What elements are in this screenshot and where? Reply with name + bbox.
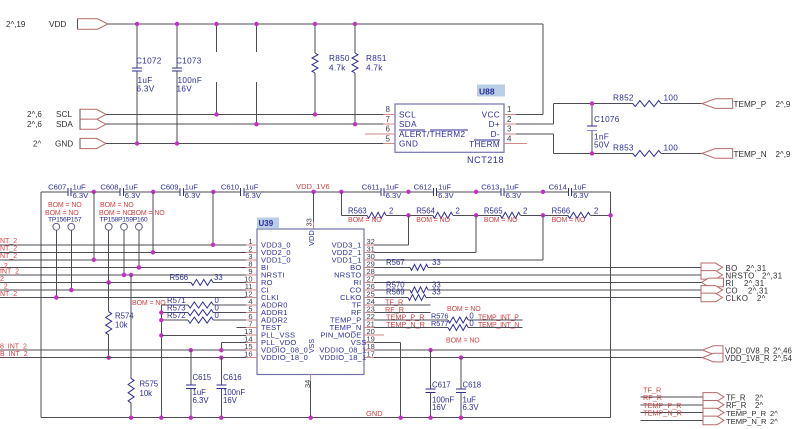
port CO — [701, 286, 723, 295]
svg-text:8_INT_2: 8_INT_2 — [0, 344, 27, 351]
svg-text:R565: R565 — [484, 207, 503, 216]
svg-text:U88: U88 — [479, 87, 495, 97]
wire VDDIO_18_1 pin17 to port VDD_1V8_R — [374, 357, 703, 359]
U39 right pin 25 CLKO — [364, 296, 374, 298]
svg-text:R575: R575 — [140, 380, 159, 389]
resistor R577 0 — [374, 327, 448, 329]
svg-text:6.3V: 6.3V — [506, 191, 523, 200]
port GND — [80, 138, 106, 148]
svg-text:33: 33 — [432, 288, 441, 297]
wire RI to port — [374, 281, 702, 283]
U88 pin 5 GND — [383, 143, 395, 145]
svg-text:U39: U39 — [259, 219, 274, 228]
junction dots GND — [135, 141, 139, 145]
wire bus row4 (to U39 pin8 BI) — [0, 266, 246, 268]
svg-text:BOM = NO: BOM = NO — [100, 202, 134, 209]
svg-text:100: 100 — [664, 94, 679, 103]
svg-text:0: 0 — [215, 311, 220, 320]
wire D+ to TEMP_P — [516, 123, 554, 125]
svg-text:THERM: THERM — [469, 140, 500, 149]
wire GND rail — [41, 417, 611, 419]
wire TEMP_P_R to port — [641, 412, 704, 414]
svg-text:TP156P157: TP156P157 — [48, 217, 82, 224]
port SDA — [80, 119, 106, 129]
svg-text:17: 17 — [367, 350, 375, 359]
svg-text:VDD: VDD — [49, 20, 66, 29]
svg-text:R567: R567 — [386, 258, 405, 267]
U39 right pin 22 TEMP_P — [364, 319, 374, 321]
port VDD_1V8_R — [703, 353, 724, 362]
svg-text:6.3V: 6.3V — [573, 191, 590, 200]
svg-text:TP158P159P160: TP158P159P160 — [100, 217, 148, 224]
junction dots GND rail — [129, 416, 133, 420]
svg-text:TEMP_P: TEMP_P — [734, 100, 767, 109]
resistor R563 2 (BOM=NO) — [340, 192, 342, 216]
wire RF stub — [374, 311, 430, 313]
svg-text:D+: D+ — [489, 120, 500, 129]
wire RF_R to port — [641, 404, 704, 406]
capacitor C610 1uF 6.3V — [240, 188, 242, 196]
wire testpoint drop x=71.3 — [70, 230, 72, 290]
wire TEMP_N_R to port — [641, 419, 704, 421]
IC U39 body — [257, 229, 364, 375]
U39 right pin 24 TF — [364, 304, 374, 306]
svg-text:10k: 10k — [115, 321, 128, 330]
svg-text:C1072: C1072 — [136, 57, 162, 66]
testpoint TP157 circle — [68, 223, 75, 230]
svg-text:NT_2: NT_2 — [0, 253, 17, 260]
label U39 — [257, 218, 279, 229]
svg-text:NT_2: NT_2 — [0, 238, 17, 245]
svg-text:C617: C617 — [432, 381, 451, 390]
svg-text:5: 5 — [386, 134, 391, 143]
svg-text:10k: 10k — [140, 389, 153, 398]
svg-text:BOM = NO: BOM = NO — [484, 217, 518, 224]
U39 right pin 31 VDD2_1 — [364, 251, 374, 253]
U39 right pin 27 RI — [364, 281, 374, 283]
svg-text:BOM = NO: BOM = NO — [552, 217, 586, 224]
port TEMP_P_R — [703, 408, 724, 417]
U39 left pin 7 TEST — [246, 327, 257, 329]
wire bus row6 (to U39 pin10 RO) with R568 — [0, 281, 191, 283]
svg-text:6.3V: 6.3V — [137, 85, 155, 94]
junction dot D+ node — [590, 101, 594, 105]
wire U39 pin30 to rail — [364, 259, 543, 261]
wire U39 pin33 to rail — [313, 192, 315, 222]
svg-text:R850: R850 — [329, 54, 350, 63]
junction dots on bus rows — [211, 243, 215, 247]
svg-text:4.7k: 4.7k — [366, 64, 383, 73]
U88 pin 4 THERM (no connect) — [504, 143, 527, 145]
U39 left pin 16 VDDIO_18_0 — [246, 357, 257, 359]
resistor R572 0 — [161, 319, 188, 321]
U39 left pin 5 ADDR1 — [246, 311, 257, 313]
svg-text:R563: R563 — [348, 207, 367, 216]
resistor R565 2 (BOM=NO) — [476, 214, 500, 216]
wire SCL — [106, 113, 383, 115]
svg-text:2: 2 — [594, 207, 598, 216]
svg-text:VDDIO_18_0: VDDIO_18_0 — [261, 353, 308, 362]
svg-text:R852: R852 — [613, 94, 634, 103]
svg-text:16V: 16V — [432, 403, 447, 412]
svg-text:2: 2 — [456, 207, 460, 216]
svg-text:6.3V: 6.3V — [245, 191, 262, 200]
op-amp U88 NCT218 body — [395, 104, 504, 152]
svg-text:VDD: VDD — [307, 230, 316, 246]
port TEMP_P — [702, 99, 733, 109]
junction dots VDD_1V6 rail — [92, 190, 96, 194]
resistor R566 2 (BOM=NO) — [543, 214, 568, 216]
U39 right pin 18 VDDIO_08_1 — [364, 349, 374, 351]
svg-text:7: 7 — [386, 115, 391, 124]
U39 left pin 8 BI — [246, 266, 257, 268]
wire rail to U39 pin2 — [152, 192, 154, 253]
svg-text:R572: R572 — [167, 311, 186, 320]
svg-text:R566: R566 — [170, 273, 189, 282]
U39 left pin 1 VDD3_0 — [246, 244, 257, 246]
svg-text:BOM = NO: BOM = NO — [48, 202, 82, 209]
port CLKO — [701, 293, 723, 302]
svg-text:C607: C607 — [48, 183, 66, 192]
svg-text:2: 2 — [507, 115, 512, 124]
svg-text:6.3V: 6.3V — [125, 191, 142, 200]
junction dot D- node — [590, 151, 594, 155]
testpoint TP156 circle — [53, 223, 60, 230]
svg-text:CLKO: CLKO — [726, 294, 749, 303]
svg-text:C614: C614 — [549, 183, 567, 192]
svg-text:2^,9: 2^,9 — [776, 150, 791, 159]
svg-text:SDA: SDA — [399, 120, 417, 129]
svg-text:C612: C612 — [414, 183, 432, 192]
svg-text:100: 100 — [664, 143, 679, 152]
svg-text:2: 2 — [389, 207, 393, 216]
svg-text:B_INT_2: B_INT_2 — [0, 351, 28, 358]
resistor R853 100 — [633, 150, 661, 156]
capacitor C1072 — [136, 24, 138, 68]
resistor R566b 33 (series RO) — [191, 279, 213, 285]
svg-text:SCL: SCL — [399, 110, 416, 119]
U39 right pin 28 NRSTO — [364, 274, 374, 276]
capacitor C1073 — [176, 24, 178, 68]
svg-text:16V: 16V — [223, 396, 238, 405]
U88 pin 1 VCC — [504, 113, 516, 115]
svg-text:VDD_1V8_R: VDD_1V8_R — [725, 354, 770, 363]
svg-text:2^: 2^ — [33, 139, 41, 148]
wire VDD_1V6 rail — [41, 191, 68, 193]
wire bus row5 (to U39 pin9 NRSTI) — [0, 274, 246, 276]
U39 right pin 19 VSS — [364, 342, 374, 344]
svg-text:BOM = NO: BOM = NO — [416, 217, 450, 224]
port TF_R — [703, 393, 724, 402]
svg-text:R577: R577 — [431, 319, 448, 328]
wire bus row7 (to U39 pin11 CI) — [0, 289, 246, 291]
svg-text:C608: C608 — [100, 183, 118, 192]
svg-text:TEMP_INT_N: TEMP_INT_N — [478, 322, 519, 329]
svg-text:TEMP_N_R: TEMP_N_R — [643, 409, 682, 418]
svg-text:6: 6 — [386, 125, 391, 134]
svg-text:R566: R566 — [552, 207, 571, 216]
U39 right pin 17 VDDIO_18_1 — [364, 357, 374, 359]
svg-text:R853: R853 — [613, 143, 634, 152]
U39 right pin 23 RF — [364, 311, 374, 313]
resistor R569 33 — [374, 296, 408, 298]
wire SDA — [106, 123, 383, 125]
wire VCC to VDD rail — [516, 113, 543, 115]
svg-text:C610: C610 — [221, 183, 239, 192]
junction dots SDA — [254, 122, 258, 126]
wire PIN_MODE stub (no connect) — [374, 334, 384, 336]
svg-text:6.3V: 6.3V — [73, 191, 90, 200]
junction dots SCL — [214, 112, 218, 116]
svg-text:6.3V: 6.3V — [193, 396, 210, 405]
svg-text:33: 33 — [214, 273, 223, 282]
wire bus row3 (to U39 pin3) — [0, 259, 246, 261]
svg-text:2^,31: 2^,31 — [762, 271, 782, 280]
U39 left pin 3 VDD1_0 — [246, 259, 257, 261]
U39 right pin 21 TEMP_N — [364, 327, 374, 329]
svg-text:BOM = NO: BOM = NO — [348, 217, 382, 224]
svg-text:VSS: VSS — [309, 339, 316, 353]
U39 right pin 30 VDD1_1 — [364, 259, 374, 261]
wire GND — [106, 143, 383, 145]
wire VDDIO_08_1 pin18 to port VDD_0V8_R — [374, 349, 703, 351]
port SCL — [80, 109, 106, 119]
svg-text:NT_2: NT_2 — [0, 246, 17, 253]
U39 left pin 12 CLKI — [246, 296, 257, 298]
svg-text:GND: GND — [366, 409, 383, 418]
resistor R574 10k — [108, 282, 110, 311]
wire testpoint drop x=138.9 — [138, 230, 140, 267]
svg-text:C616: C616 — [223, 373, 242, 382]
junction dots resistor row — [406, 213, 410, 217]
svg-text:D-: D- — [491, 130, 500, 139]
wire PLL_VDD (U39 pin14) — [221, 341, 246, 343]
U39 left pin 13 PLL_VSS — [246, 334, 257, 336]
svg-text:2^,54: 2^,54 — [773, 354, 792, 363]
svg-text:2^: 2^ — [770, 417, 778, 426]
U39 pin 34 wire to GND rail — [310, 375, 312, 382]
U39 left pin 9 NRSTI — [246, 274, 257, 276]
svg-text:2^,6: 2^,6 — [27, 110, 42, 119]
wire D- to TEMP_N — [516, 133, 554, 135]
svg-text:16: 16 — [244, 350, 252, 359]
resistor R567 33 — [374, 266, 410, 268]
svg-text:16V: 16V — [177, 85, 193, 94]
resistor R575 10k — [130, 275, 132, 379]
resistor R852 100 — [633, 101, 661, 107]
wire testpoint drop x=56.3 — [55, 230, 57, 297]
testpoint TP159 circle — [121, 223, 128, 230]
capacitor C618 1uF 6.3V — [460, 358, 462, 389]
resistor R850 4.7k — [314, 24, 316, 53]
wire testpoint drop x=108.7 — [108, 230, 110, 282]
U88 pin 6 ALERT/THERM2 (no connect) — [365, 133, 395, 135]
label U88 — [477, 85, 505, 97]
svg-text:8: 8 — [386, 105, 391, 114]
wire TF stub — [374, 304, 430, 306]
wire NRSTO to port — [374, 274, 702, 276]
testpoint TP158 circle — [105, 223, 112, 230]
svg-text:2: 2 — [523, 207, 527, 216]
U39 right pin 29 BO — [364, 266, 374, 268]
svg-text:R564: R564 — [416, 207, 435, 216]
wire ADDR strap vertical — [160, 305, 162, 418]
U39 left pin 11 CI — [246, 289, 257, 291]
port RF_R — [703, 401, 724, 410]
wire testpoint drop x=124.0 — [123, 230, 125, 275]
svg-text:6.3V: 6.3V — [386, 191, 403, 200]
wire VDD rail — [108, 23, 543, 25]
U39 left pin 10 RO — [246, 281, 257, 283]
svg-text:SCL: SCL — [56, 110, 72, 119]
svg-text:R851: R851 — [366, 54, 387, 63]
capacitor C1076 1nF 50V — [591, 104, 593, 126]
port TEMP_N — [702, 149, 733, 159]
svg-text:TEMP_INT_P: TEMP_INT_P — [478, 314, 519, 321]
svg-text:6.3V: 6.3V — [185, 191, 202, 200]
svg-text:33: 33 — [305, 218, 314, 226]
U88 pin 3 D- — [504, 133, 516, 135]
wire bus row8 (to U39 pin12 CLKI) — [0, 297, 246, 299]
svg-text:NCT218: NCT218 — [467, 155, 504, 165]
svg-text:TEMP_N_R: TEMP_N_R — [726, 417, 767, 426]
svg-text:2: 2 — [0, 276, 4, 283]
wire rail left drop — [40, 192, 42, 418]
svg-text:4: 4 — [507, 134, 512, 143]
U39 right pin 20 PIN_MODE — [364, 334, 374, 336]
svg-text:R569: R569 — [386, 288, 405, 297]
svg-text:TEMP_N: TEMP_N — [734, 150, 767, 159]
port RI (input) — [702, 278, 724, 287]
svg-text:6.3V: 6.3V — [438, 191, 455, 200]
U39 left pin 15 VDDIO_08_0 — [246, 349, 257, 351]
svg-text:C1073: C1073 — [176, 57, 202, 66]
svg-text:C609: C609 — [160, 183, 178, 192]
wire bus row2 (to U39 pin2) — [0, 251, 246, 253]
port VDD — [78, 19, 109, 29]
capacitor C617 100nF 16V — [430, 350, 432, 389]
svg-text:2^,9: 2^,9 — [776, 100, 791, 109]
resistor R576 0 — [374, 319, 448, 321]
wire VSS pin19 to GND — [374, 342, 401, 344]
capacitor C609 1uF 6.3V — [179, 188, 181, 196]
svg-text:_2: _2 — [0, 284, 8, 291]
wire VDDIO_18_0 (U39 pin16) — [0, 357, 246, 359]
svg-text:VDDIO_18_1: VDDIO_18_1 — [319, 353, 366, 362]
U39 left pin 4 ADDR0 — [246, 304, 257, 306]
U39 left pin 6 ADDR2 — [246, 319, 257, 321]
U39 right pin 26 CO — [364, 289, 374, 291]
wire TF_R to port — [641, 396, 704, 398]
U88 pin 2 D+ — [504, 123, 516, 125]
svg-text:50V: 50V — [594, 141, 610, 150]
svg-text:0: 0 — [469, 319, 474, 328]
wire VDDIO_08_0 (U39 pin15) — [0, 349, 246, 351]
wire rail to U39 pin1 — [212, 192, 214, 245]
resistor R571 0 — [161, 304, 188, 306]
U39 left pin 14 PLL_VDO — [246, 342, 257, 344]
svg-text:INT_2: INT_2 — [0, 268, 19, 275]
wire U39 pin32 to rail — [364, 244, 409, 246]
capacitor C614 1uF 6.3V — [567, 188, 569, 196]
capacitor C615 1uF 6.3V — [190, 350, 192, 385]
capacitor C608 1uF 6.3V — [119, 188, 121, 196]
capacitor C612 1uF 6.3V — [432, 188, 434, 196]
capacitor C613 1uF 6.3V — [500, 188, 502, 196]
U39 right pin 32 VDD3_1 — [364, 244, 374, 246]
svg-text:2^,6: 2^,6 — [27, 120, 42, 129]
svg-text:GND: GND — [399, 140, 418, 149]
wire U39 pin31 to rail — [364, 251, 476, 253]
svg-text:4.7k: 4.7k — [329, 64, 346, 73]
svg-text:SDA: SDA — [56, 120, 73, 129]
resistor R570 33 — [374, 289, 410, 291]
port TEMP_N_R — [703, 416, 724, 425]
svg-text:ALERT/THERM2: ALERT/THERM2 — [399, 130, 465, 139]
port NRSTO — [701, 271, 723, 280]
wire TEST stub (U39 pin7) — [237, 327, 246, 329]
capacitor C607 1uF 6.3V — [67, 188, 69, 196]
testpoint TP1510 circle — [136, 223, 143, 230]
svg-text:GND: GND — [55, 139, 73, 148]
svg-text:BOM = NO: BOM = NO — [446, 338, 480, 345]
svg-text:1: 1 — [507, 105, 512, 114]
svg-text:VDD_1V6: VDD_1V6 — [296, 182, 330, 191]
resistor R564 2 (BOM=NO) — [409, 214, 433, 216]
svg-text:BOM = NO: BOM = NO — [447, 306, 481, 313]
U39 left pin 2 VDD2_0 — [246, 251, 257, 253]
svg-text:6.3V: 6.3V — [463, 403, 480, 412]
svg-text:VCC: VCC — [482, 110, 500, 119]
junction dots VDD rail — [135, 22, 139, 26]
port VDD_0V8_R — [703, 346, 724, 355]
svg-text:C618: C618 — [463, 381, 482, 390]
U88 pin 8 SCL — [383, 113, 395, 115]
svg-text:C613: C613 — [481, 183, 499, 192]
wire bus row1 (to U39 pin1) — [0, 244, 246, 246]
wire rail right drop — [610, 192, 612, 418]
svg-text:NT_2: NT_2 — [0, 291, 17, 298]
svg-text:2^: 2^ — [757, 294, 766, 303]
resistor R851 4.7k — [354, 24, 356, 53]
capacitor C616 100nF 16V — [220, 358, 222, 386]
svg-text:3: 3 — [507, 125, 512, 134]
wire stub VDD to SDA (gap) — [256, 24, 258, 52]
svg-text:2^,19: 2^,19 — [6, 20, 26, 29]
wire PLL_VSS (U39 pin13) — [161, 334, 246, 336]
resistor R573 0 — [161, 312, 188, 314]
U88 pin 7 SDA — [383, 123, 395, 125]
wire stub VDD to SCL (gap) — [216, 24, 218, 52]
port BO — [701, 263, 723, 272]
wire rail to U39 pin3 — [93, 192, 95, 260]
svg-text:C611: C611 — [362, 183, 380, 192]
capacitor C611 1uF 6.3V — [380, 188, 382, 196]
svg-text:C615: C615 — [193, 373, 212, 382]
svg-text:C1076: C1076 — [594, 115, 620, 124]
svg-text:33: 33 — [432, 258, 441, 267]
